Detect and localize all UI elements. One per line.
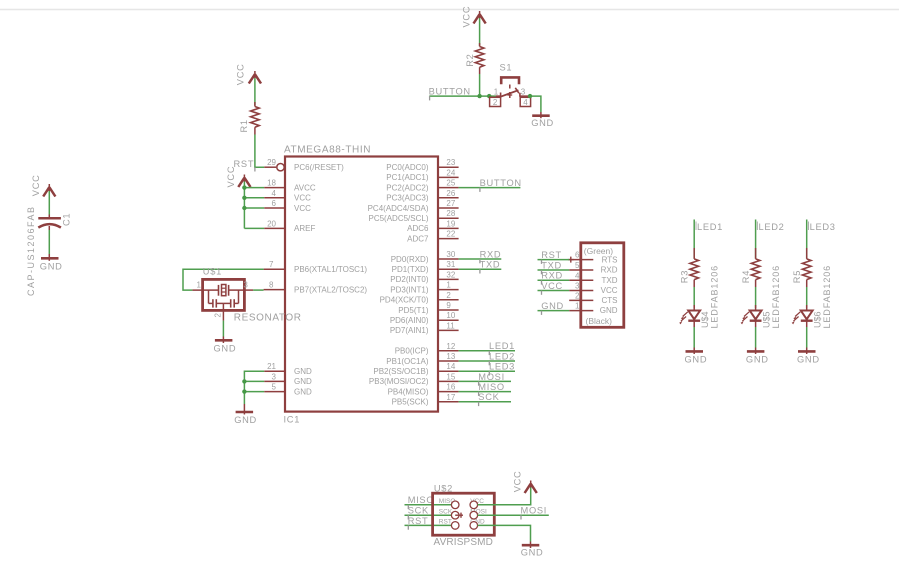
svg-text:26: 26 [446, 189, 455, 198]
wire LED1 net to R3 [693, 220, 695, 259]
svg-text:1: 1 [446, 281, 451, 290]
svg-text:VCC: VCC [513, 471, 523, 493]
tick LED2 (net) [756, 222, 758, 231]
wire TXD (connector) [538, 269, 570, 271]
frame hairline [0, 9, 899, 11]
cross mark pin 6 [568, 257, 574, 263]
svg-text:VCC: VCC [294, 194, 311, 203]
svg-text:MISO: MISO [478, 382, 505, 392]
svg-text:30: 30 [446, 250, 455, 259]
svg-text:18: 18 [267, 179, 276, 188]
ground GND (S1) [532, 112, 550, 118]
tick VCC (connector) [541, 291, 543, 295]
label C1 [61, 213, 71, 226]
tick LED1 [488, 351, 490, 355]
svg-text:6: 6 [272, 199, 277, 208]
svg-text:2: 2 [493, 98, 498, 107]
ground GND (C1) [41, 254, 59, 261]
wire R2 to button net [479, 74, 481, 96]
svg-text:4: 4 [575, 271, 580, 280]
IC1 left pin names [294, 163, 367, 396]
tick TXD (connector) [541, 270, 543, 274]
svg-text:VCC: VCC [226, 166, 236, 188]
svg-text:29: 29 [267, 158, 276, 167]
svg-text:20: 20 [267, 219, 276, 228]
tick SCK [478, 402, 480, 406]
wire XTAL2 to resonator pin3 [253, 289, 264, 291]
pin 1 stub [192, 289, 208, 291]
tick RST (ISP) [407, 525, 409, 529]
svg-text:15: 15 [446, 372, 455, 381]
svg-text:TXD: TXD [541, 260, 562, 270]
svg-text:GND: GND [234, 415, 257, 425]
svg-text:7: 7 [269, 260, 274, 269]
supply VCC (AVCC) [238, 175, 250, 188]
wire TXD [459, 268, 502, 270]
svg-text:RST: RST [541, 250, 562, 260]
svg-text:RXD: RXD [541, 271, 563, 281]
svg-text:19: 19 [446, 219, 455, 228]
svg-text:RXD: RXD [480, 249, 502, 259]
svg-text:C1: C1 [61, 213, 71, 226]
svg-text:PC5(ADC5/SCL): PC5(ADC5/SCL) [368, 214, 428, 223]
connector pin names [600, 256, 618, 316]
svg-text:PD6(AIN0): PD6(AIN0) [390, 316, 429, 325]
wire R1 to RST pin [255, 135, 264, 168]
label LEDFAB1206 (1) [710, 265, 720, 329]
svg-text:RST: RST [408, 516, 429, 526]
svg-text:U$5: U$5 [761, 311, 771, 328]
label U$5 [761, 311, 771, 328]
svg-text:16: 16 [446, 383, 455, 392]
svg-text:PC1(ADC1): PC1(ADC1) [386, 173, 429, 182]
tick RXD [479, 259, 481, 263]
svg-text:PD1(TXD): PD1(TXD) [392, 265, 429, 274]
connector pin stubs [569, 260, 593, 311]
svg-text:MISO: MISO [408, 495, 435, 505]
svg-text:PC0(ADC0): PC0(ADC0) [386, 163, 429, 172]
svg-text:SCK: SCK [439, 508, 453, 515]
tick MOSI [478, 381, 480, 385]
wire R4 to LED [755, 287, 757, 308]
tick BUTTON [429, 96, 431, 100]
svg-text:(Black): (Black) [586, 316, 613, 326]
svg-text:RESONATOR: RESONATOR [234, 313, 302, 324]
junction dots (GND net) [242, 379, 246, 394]
wire VCC to AVCC/VCC/VCC/AREF pins [244, 182, 264, 229]
svg-text:SCK: SCK [478, 392, 499, 402]
svg-text:ADC6: ADC6 [407, 224, 429, 233]
ground GND (LED2) [747, 348, 765, 355]
svg-text:LEDFAB1206: LEDFAB1206 [771, 265, 781, 329]
wire LED2 net to R4 [755, 220, 757, 259]
label LEDFAB1206 (2) [771, 265, 781, 329]
svg-text:ADC7: ADC7 [407, 234, 429, 243]
svg-text:3: 3 [272, 372, 277, 381]
svg-text:23: 23 [446, 158, 455, 167]
svg-text:24: 24 [446, 168, 455, 177]
svg-text:14: 14 [446, 362, 455, 371]
svg-text:LED1: LED1 [489, 341, 515, 351]
IC1 left pin numbers [267, 158, 276, 391]
svg-text:1: 1 [197, 281, 202, 290]
label VCC (ISP) [513, 471, 523, 493]
svg-text:PD5(T1): PD5(T1) [398, 306, 429, 315]
wire LED1 [459, 350, 515, 352]
wire LED to GND (3) [806, 327, 808, 348]
svg-text:U$4: U$4 [700, 311, 710, 328]
svg-text:GND: GND [746, 354, 769, 364]
AVRISP pads [451, 501, 477, 529]
LED U$5 [741, 305, 762, 327]
junction dots (AVCC net) [242, 185, 246, 210]
svg-text:LEDFAB1206: LEDFAB1206 [822, 265, 832, 329]
svg-text:SCK: SCK [408, 506, 429, 516]
svg-text:PC2(ADC2): PC2(ADC2) [386, 183, 429, 192]
ground GND (LED3) [798, 348, 816, 355]
IC1 left pin stubs [264, 188, 285, 392]
contact blade [501, 90, 519, 97]
tick RXD (connector) [541, 280, 543, 284]
tick SCK (ISP) [407, 515, 409, 519]
svg-text:8: 8 [269, 281, 274, 290]
svg-text:U$1: U$1 [203, 267, 222, 277]
svg-text:LED2: LED2 [759, 222, 785, 232]
svg-text:1: 1 [575, 302, 580, 311]
label R5 [792, 270, 802, 283]
svg-text:R5: R5 [792, 270, 802, 283]
label VCC (R2) [461, 6, 471, 28]
connector pin numbers [575, 251, 580, 311]
svg-text:PD0(RXD): PD0(RXD) [391, 255, 429, 264]
IC1 body [285, 157, 438, 412]
svg-text:MOSI: MOSI [478, 372, 505, 382]
svg-text:PC6(/RESET): PC6(/RESET) [294, 163, 344, 172]
label R2 [465, 54, 475, 67]
svg-text:3: 3 [575, 282, 580, 291]
svg-text:VCC: VCC [294, 204, 311, 213]
tick MOSI (ISP) [520, 515, 522, 519]
svg-text:ATMEGA88-THIN: ATMEGA88-THIN [284, 145, 371, 156]
svg-text:PB0(ICP): PB0(ICP) [395, 347, 429, 356]
tick TXD [479, 269, 481, 273]
wire LED3 [459, 370, 515, 372]
connector body [581, 243, 624, 327]
IC1 right pin stubs [438, 167, 459, 402]
label LEDFAB1206 (3) [822, 265, 832, 329]
svg-text:PB7(XTAL2/TOSC2): PB7(XTAL2/TOSC2) [294, 285, 367, 294]
svg-text:5: 5 [272, 383, 277, 392]
tick LED3 [488, 371, 490, 375]
svg-text:GND: GND [541, 301, 564, 311]
svg-text:(Green): (Green) [584, 246, 613, 256]
svg-text:GND: GND [531, 118, 554, 128]
svg-text:28: 28 [446, 209, 455, 218]
AVRISP inside pin names [439, 498, 487, 526]
svg-text:AVRISPSMD: AVRISPSMD [434, 537, 494, 548]
svg-text:LED3: LED3 [489, 362, 515, 372]
svg-text:PB3(MOSI/OC2): PB3(MOSI/OC2) [369, 377, 429, 386]
svg-text:11: 11 [446, 321, 455, 330]
svg-text:2: 2 [446, 291, 451, 300]
label CAP-US1206FAB [26, 205, 36, 296]
junction dot (pad 2) [487, 94, 491, 98]
wire LED2 [459, 360, 515, 362]
supply VCC (R2) [474, 11, 486, 24]
svg-text:U$2: U$2 [434, 483, 453, 493]
resistor R3 [690, 248, 699, 287]
wire VCC to C1 [48, 191, 50, 215]
svg-text:CTS: CTS [602, 296, 618, 305]
junction dot (R2/button) [477, 94, 481, 98]
svg-text:PB2(SS/OC1B): PB2(SS/OC1B) [373, 367, 428, 376]
resonator U$1 [192, 279, 253, 320]
tick RST (connector) [541, 260, 543, 264]
LED U$4 [679, 305, 700, 327]
svg-text:2: 2 [575, 291, 580, 300]
svg-text:9: 9 [446, 301, 451, 310]
label R4 [741, 270, 751, 283]
wire S1 to GND [530, 96, 541, 112]
label VCC (AVCC) [226, 166, 236, 188]
svg-text:RST: RST [439, 519, 452, 526]
AVRISP body [433, 493, 495, 535]
wire VCC (connector) [538, 290, 570, 292]
wire MOSI (ISP) [478, 514, 549, 516]
svg-text:AREF: AREF [294, 224, 315, 233]
wire GND (connector) [538, 310, 570, 312]
svg-text:BUTTON: BUTTON [480, 178, 522, 188]
svg-text:3: 3 [243, 281, 248, 290]
svg-text:PB6(XTAL1/TOSC1): PB6(XTAL1/TOSC1) [294, 265, 367, 274]
svg-text:PD7(AIN1): PD7(AIN1) [390, 326, 429, 335]
svg-text:R2: R2 [465, 54, 475, 67]
label R1 [239, 119, 249, 132]
label U$4 [700, 311, 710, 328]
svg-text:IC1: IC1 [284, 415, 301, 425]
crystal plates [209, 289, 219, 291]
svg-text:10: 10 [446, 311, 455, 320]
svg-text:BUTTON: BUTTON [429, 87, 471, 97]
wire GND pins to ground [244, 371, 264, 404]
svg-text:LED3: LED3 [810, 222, 836, 232]
svg-text:MOSI: MOSI [521, 506, 548, 516]
svg-text:27: 27 [446, 199, 455, 208]
wire XTAL1 to resonator pin1 [183, 269, 264, 290]
svg-text:17: 17 [446, 393, 455, 402]
svg-text:RXD: RXD [601, 266, 618, 275]
resistor R5 [802, 248, 811, 287]
wire BUTTON (pin 25) [459, 187, 521, 189]
pad 4 square [520, 97, 530, 106]
svg-text:VCC: VCC [541, 281, 563, 291]
pin 1 stub [496, 95, 501, 97]
wire R3 to LED [693, 287, 695, 308]
wire RST (connector) [538, 259, 570, 261]
wire GND pad to ground (ISP) [478, 525, 531, 541]
svg-text:13: 13 [446, 352, 455, 361]
wire LED to GND (1) [693, 327, 695, 348]
svg-text:PB4(MISO): PB4(MISO) [388, 387, 429, 396]
svg-text:PD2(INT0): PD2(INT0) [390, 275, 429, 284]
svg-text:PB1(OC1A): PB1(OC1A) [386, 357, 429, 366]
wire C1 to GND [48, 230, 50, 254]
svg-text:AVCC: AVCC [294, 183, 316, 192]
tick BUTTON (pin 25) [479, 188, 481, 192]
svg-text:32: 32 [446, 270, 455, 279]
svg-text:22: 22 [446, 230, 455, 239]
resistor R4 [751, 248, 760, 287]
svg-text:RST: RST [234, 159, 255, 169]
svg-text:21: 21 [267, 362, 276, 371]
pad stub SCK cross [455, 513, 463, 518]
resistor R2 [475, 43, 484, 74]
svg-text:GND: GND [294, 367, 312, 376]
wire resonator pin2 to GND [222, 321, 224, 337]
svg-text:6: 6 [575, 251, 580, 260]
svg-text:5: 5 [575, 261, 580, 270]
pin 2 stub [222, 303, 224, 320]
svg-text:PC3(ADC3): PC3(ADC3) [386, 194, 429, 203]
IC1 right pin numbers [446, 158, 455, 402]
svg-text:TXD: TXD [480, 260, 501, 270]
supply VCC (ISP) [525, 481, 537, 494]
ground GND (U$1) [215, 337, 233, 344]
ground GND (ISP) [522, 542, 540, 549]
wire RST (ISP) [405, 524, 452, 526]
wire LED3 net to R5 [806, 220, 808, 259]
supply VCC (C1) [43, 184, 55, 197]
svg-text:25: 25 [446, 179, 455, 188]
wire BUTTON net [429, 95, 496, 97]
svg-text:VCC: VCC [236, 63, 246, 85]
tick GND (connector) [541, 311, 543, 315]
tick LED3 (net) [808, 222, 810, 231]
svg-text:GND: GND [685, 354, 708, 364]
actuator bracket [501, 77, 519, 84]
supply VCC (R1) [249, 71, 261, 84]
svg-text:TXD: TXD [602, 276, 618, 285]
svg-text:3: 3 [521, 87, 526, 96]
svg-text:4: 4 [272, 189, 277, 198]
wire VCC to R2 [479, 18, 481, 46]
svg-text:R4: R4 [741, 270, 751, 283]
pin 3 stub [239, 289, 254, 291]
svg-text:VCC: VCC [31, 174, 41, 196]
LED U$6 [792, 305, 813, 327]
junction dot (S1 pin3) [528, 94, 532, 98]
svg-text:GND: GND [40, 262, 63, 272]
wire VCC to pad (ISP) [478, 488, 531, 505]
ground GND (LED1) [686, 348, 704, 355]
pin 29 PC6(/RESET) [264, 164, 284, 171]
svg-text:PB5(SCK): PB5(SCK) [392, 398, 429, 407]
pin 3 stub [520, 95, 530, 97]
wire R5 to LED [806, 287, 808, 308]
svg-text:U$6: U$6 [813, 311, 823, 328]
svg-text:LED1: LED1 [697, 222, 723, 232]
switch S1 [490, 77, 531, 106]
actuator dashed stem [509, 85, 511, 89]
svg-text:GND: GND [214, 343, 237, 353]
svg-text:GND: GND [294, 377, 312, 386]
wire LED to GND (2) [755, 327, 757, 348]
pad 2 square [490, 97, 501, 106]
wire RXD [459, 258, 502, 260]
label VCC (R1) [236, 63, 246, 85]
resistor R1 [251, 102, 260, 135]
svg-text:PD4(XCK/T0): PD4(XCK/T0) [380, 296, 429, 305]
svg-text:PD3(INT1): PD3(INT1) [390, 285, 429, 294]
svg-text:R3: R3 [680, 270, 690, 283]
tick LED1 (net) [695, 222, 697, 231]
tick MISO (ISP) [407, 505, 409, 509]
svg-text:2: 2 [213, 313, 222, 318]
svg-text:VCC: VCC [461, 6, 471, 28]
svg-text:31: 31 [446, 260, 455, 269]
wire MISO (ISP) [405, 504, 452, 506]
tick RST [254, 167, 256, 171]
svg-text:RTS: RTS [602, 256, 618, 265]
svg-text:GND: GND [521, 548, 544, 558]
label pin 2 (U$1) [213, 313, 222, 318]
svg-text:R1: R1 [239, 119, 249, 132]
svg-text:GND: GND [600, 306, 618, 315]
wire SCK (ISP) [405, 514, 452, 516]
svg-text:GND: GND [294, 387, 312, 396]
tick LED2 [488, 361, 490, 365]
IC1 right pin names [368, 163, 429, 407]
svg-text:VCC: VCC [601, 286, 618, 295]
ground GND (IC1) [236, 404, 254, 415]
wire MISO [459, 391, 511, 393]
wire VCC to R1 [254, 78, 256, 106]
svg-text:LED2: LED2 [489, 351, 515, 361]
tick MISO [478, 392, 480, 396]
wire RXD (connector) [538, 279, 570, 281]
svg-text:4: 4 [523, 98, 528, 107]
svg-text:12: 12 [446, 342, 455, 351]
wire SCK [459, 401, 511, 403]
svg-text:LEDFAB1206: LEDFAB1206 [710, 265, 720, 329]
wire MOSI [459, 380, 511, 382]
svg-text:1: 1 [494, 87, 499, 96]
label R3 [680, 270, 690, 283]
svg-text:GND: GND [797, 354, 820, 364]
svg-text:CAP-US1206FAB: CAP-US1206FAB [26, 205, 36, 296]
svg-text:S1: S1 [500, 62, 513, 72]
label U$6 [813, 311, 823, 328]
internal caps [208, 290, 210, 303]
svg-text:PC4(ADC4/SDA): PC4(ADC4/SDA) [368, 204, 429, 213]
capacitor C1 [38, 215, 61, 231]
label VCC (C1) [31, 174, 41, 196]
